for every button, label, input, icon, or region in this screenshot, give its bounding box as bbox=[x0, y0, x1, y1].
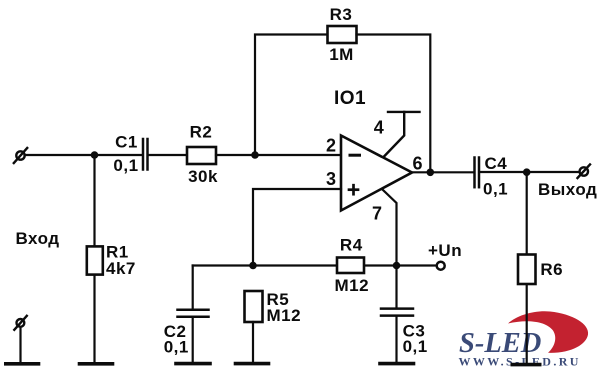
svg-text:4k7: 4k7 bbox=[106, 259, 136, 278]
svg-text:R3: R3 bbox=[330, 5, 353, 24]
svg-text:4: 4 bbox=[374, 118, 384, 138]
svg-text:R6: R6 bbox=[540, 260, 563, 279]
node A (input/R1 junction) bbox=[91, 151, 99, 159]
resistor R2 bbox=[187, 147, 216, 164]
wire: R2 to op-amp pin 2 bbox=[216, 154, 341, 156]
pin 7 lead bbox=[383, 190, 397, 266]
wire: C2 to ground bbox=[192, 318, 194, 363]
op-amp minus sign bbox=[350, 154, 360, 157]
node E (pin7/C3/+Un rail junction) bbox=[393, 262, 401, 270]
node B (R2 / R3 feedback junction) bbox=[251, 151, 259, 159]
ground (C3) bbox=[380, 362, 414, 366]
svg-text:+Un: +Un bbox=[428, 241, 462, 260]
svg-text:7: 7 bbox=[372, 204, 382, 224]
resistor R1 bbox=[87, 246, 103, 274]
capacitor C1 bbox=[143, 139, 148, 170]
resistor R6 bbox=[518, 255, 536, 285]
wire: C3 to ground bbox=[395, 316, 397, 363]
ground (R6, over logo) bbox=[511, 363, 542, 367]
capacitor C4 bbox=[475, 158, 480, 188]
svg-text:R4: R4 bbox=[340, 236, 363, 255]
wire: input junction down to R1 bbox=[93, 155, 95, 246]
wire: feedback left vertical bbox=[255, 35, 328, 156]
resistor R5 bbox=[245, 291, 263, 322]
svg-text:M12: M12 bbox=[335, 276, 370, 295]
wire: input terminal to C1 bbox=[25, 154, 143, 156]
node D (pin3/R5 rail junction) bbox=[249, 262, 257, 270]
node F (C4 / R6 junction) bbox=[523, 168, 531, 176]
wire: C1 to R2 bbox=[149, 154, 187, 156]
op-amp U1 triangle bbox=[341, 136, 412, 211]
wire: bottom supply rail bbox=[193, 264, 437, 266]
wire: shield terminal to ground bbox=[19, 327, 21, 363]
svg-text:1M: 1M bbox=[329, 45, 354, 64]
wire: R1 to ground bbox=[93, 275, 95, 363]
S-LED logo red swoosh bbox=[508, 311, 588, 353]
svg-text:Выход: Выход bbox=[538, 180, 597, 199]
pin 4 lead with T-bar bbox=[384, 112, 420, 157]
+Un terminal bbox=[437, 262, 445, 270]
node C (feedback / output junction) bbox=[427, 169, 435, 177]
wire: rail down to C3 bbox=[395, 266, 397, 309]
capacitor C3 bbox=[381, 309, 413, 316]
ground (R1) bbox=[80, 362, 113, 366]
ground (shield) bbox=[6, 362, 39, 366]
wire: C4 to output terminal bbox=[480, 171, 579, 173]
wire: R5 to ground bbox=[252, 322, 254, 363]
wire: op-amp output to C4 bbox=[412, 171, 474, 173]
wire: C2 drop from rail bbox=[192, 266, 194, 310]
capacitor C2 bbox=[178, 310, 209, 317]
svg-text:30k: 30k bbox=[188, 167, 218, 186]
wire: R6 top bbox=[526, 172, 528, 254]
svg-text:6: 6 bbox=[412, 154, 422, 174]
svg-text:M12: M12 bbox=[267, 306, 302, 325]
resistor R4 bbox=[337, 258, 364, 274]
input terminal (circle with slash) bbox=[14, 148, 27, 163]
output terminal (circle with slash) bbox=[578, 165, 591, 179]
wire: R6 to ground (over logo) bbox=[526, 284, 528, 363]
svg-text:0,1: 0,1 bbox=[164, 338, 189, 357]
wire: R3 to right vertical down to output node bbox=[357, 35, 431, 173]
svg-text:0,1: 0,1 bbox=[113, 156, 138, 175]
svg-text:Вход: Вход bbox=[16, 229, 60, 248]
svg-text:0,1: 0,1 bbox=[483, 180, 508, 199]
ground (R5) bbox=[236, 362, 269, 366]
svg-text:0,1: 0,1 bbox=[403, 337, 428, 356]
svg-text:IO1: IO1 bbox=[334, 88, 366, 109]
op-amp plus sign bbox=[349, 185, 358, 194]
svg-text:2: 2 bbox=[326, 136, 336, 156]
svg-text:R2: R2 bbox=[190, 123, 213, 142]
ground (C2) bbox=[176, 362, 210, 366]
svg-text:C4: C4 bbox=[485, 154, 508, 173]
resistor R3 bbox=[328, 26, 357, 43]
wire: pin 3 to bottom rail bbox=[253, 189, 341, 266]
svg-text:C1: C1 bbox=[115, 133, 138, 152]
lower-left shield terminal bbox=[14, 316, 26, 330]
svg-text:3: 3 bbox=[326, 169, 336, 189]
